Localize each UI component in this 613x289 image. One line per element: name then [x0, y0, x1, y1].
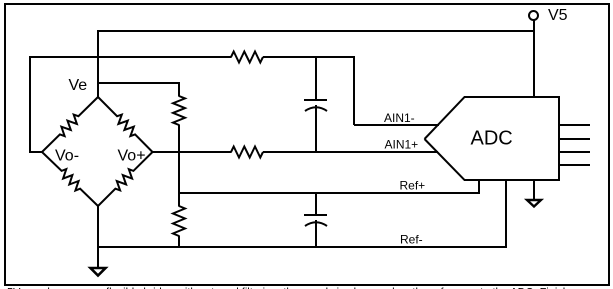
- svg-text:AIN1+: AIN1+: [385, 138, 419, 152]
- svg-text:ADC: ADC: [471, 128, 513, 150]
- svg-text:Ref+: Ref+: [400, 179, 426, 193]
- svg-text:Vo-: Vo-: [55, 148, 79, 165]
- svg-text:AIN1-: AIN1-: [384, 111, 415, 125]
- svg-text:V5: V5: [548, 7, 568, 24]
- svg-text:Ref-: Ref-: [400, 233, 423, 247]
- svg-text:Ve: Ve: [69, 77, 88, 94]
- svg-text:Vo+: Vo+: [118, 148, 146, 165]
